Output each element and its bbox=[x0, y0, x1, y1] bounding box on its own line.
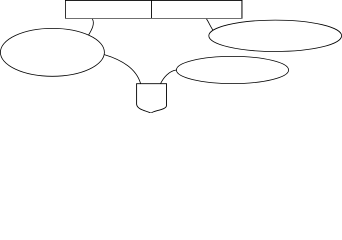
record node: right border bbox=[241, 0, 243, 19]
right ellipse bbox=[209, 20, 342, 51]
left ellipse bbox=[0, 28, 104, 76]
edge C: left ellipse to shield bbox=[104, 55, 140, 84]
edge A: record left cell to left ellipse bbox=[89, 19, 94, 35]
record node: bottom border bbox=[65, 18, 242, 20]
record node: cell divider bbox=[151, 0, 153, 19]
middle ellipse bbox=[176, 56, 288, 83]
record node (two-cell rectangle): top border bbox=[65, 0, 242, 1]
edge B: record right cell to right ellipse bbox=[207, 19, 214, 31]
shield node (pointed-bottom pentagon, clipped at canvas bottom) bbox=[137, 84, 167, 114]
record node: left border bbox=[65, 0, 67, 19]
edge D: middle ellipse to shield bbox=[161, 70, 177, 84]
